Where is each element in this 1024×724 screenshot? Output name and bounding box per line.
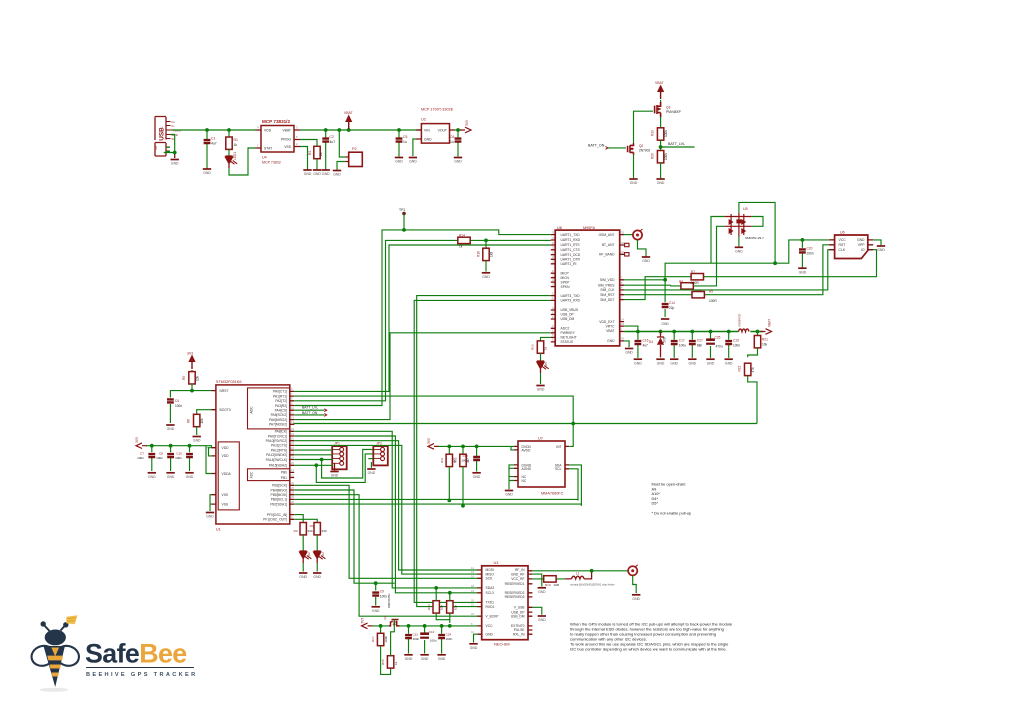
svg-text:U2: U2: [421, 118, 426, 122]
wire PA13 to JP1 pin2: [294, 453, 332, 456]
svg-text:C5: C5: [403, 135, 407, 139]
svg-text:U1: U1: [216, 528, 221, 532]
svg-text:U3: U3: [494, 561, 499, 565]
svg-text:3V3: 3V3: [361, 618, 365, 624]
svg-text:C10: C10: [176, 452, 182, 456]
svg-text:C19: C19: [733, 339, 739, 343]
wire PA11 to GPS MISO: [294, 445, 477, 574]
svg-text:5V6: 5V6: [663, 337, 667, 343]
resistor R6 10k BOOT0: [194, 414, 200, 426]
ground (R16): [482, 273, 491, 279]
svg-text:U8: U8: [557, 226, 562, 230]
wire 3V3 output: [455, 129, 462, 131]
capacitor C6 1u: [457, 130, 459, 157]
svg-text:SIM_CLK: SIM_CLK: [600, 288, 615, 292]
svg-text:VDD: VDD: [222, 446, 230, 450]
node C9 junction: [374, 581, 378, 585]
svg-text:4u7: 4u7: [643, 343, 649, 347]
ground (Q2): [629, 179, 638, 185]
svg-text:R12: R12: [454, 457, 458, 463]
svg-text:4u7: 4u7: [211, 142, 217, 146]
wire GND_RF: [532, 574, 541, 586]
connector U6 SIM holder: [829, 231, 873, 259]
svg-text:SPKN: SPKN: [561, 285, 571, 289]
svg-text:22p: 22p: [669, 306, 675, 310]
svg-text:D5*: D5*: [652, 501, 659, 506]
wire R12 to SDA bus: [462, 467, 464, 506]
svg-text:GND: GND: [661, 322, 669, 326]
svg-text:3V3: 3V3: [187, 352, 193, 356]
test point TP1: [402, 212, 406, 216]
connector JP1 SWD header: [332, 442, 347, 470]
svg-text:R3: R3: [294, 529, 298, 533]
svg-text:V_BCKP: V_BCKP: [486, 614, 500, 618]
svg-text:PA5[SCK2]: PA5[SCK2]: [271, 413, 288, 417]
ground (C8): [166, 473, 175, 479]
svg-text:68n: 68n: [697, 343, 703, 347]
wire R11 to SCL bus: [448, 467, 450, 501]
wire JP2 ground leg: [370, 462, 372, 468]
ground (D5): [536, 386, 545, 392]
svg-text:VOUT: VOUT: [438, 129, 447, 133]
svg-text:BEEHIVE GPS TRACKER: BEEHIVE GPS TRACKER: [86, 672, 197, 678]
svg-text:SIM_DET: SIM_DET: [600, 298, 614, 302]
svg-text:* Do not enable pull-up: * Do not enable pull-up: [652, 510, 692, 515]
svg-text:PB5[MOSI]: PB5[MOSI]: [271, 493, 288, 497]
ground (C15): [472, 473, 481, 479]
wire PB7 I2C SDA bus: [294, 504, 581, 506]
wire VDDA branch: [206, 446, 212, 474]
supply symbol 3V3 (VDD rail arrow): [136, 443, 147, 449]
svg-text:10k: 10k: [453, 605, 457, 610]
ground (R6): [193, 437, 202, 443]
resistor R2 2k: [314, 146, 320, 158]
wire BATT_ON gate input: [608, 147, 626, 149]
ground (C1): [203, 169, 212, 175]
wire R15 to Q1 gate: [391, 620, 395, 656]
svg-text:C6: C6: [450, 135, 454, 139]
capacitor C35 470u polarized: [710, 332, 712, 358]
svg-text:100n: 100n: [446, 637, 453, 641]
resistor R25 RF_BAND termination mark: [625, 253, 629, 256]
svg-text:Must be open-drain:: Must be open-drain:: [652, 482, 687, 487]
wire LED1 to STAT: [229, 148, 256, 175]
svg-text:R21: R21: [762, 338, 768, 342]
IC U5 TVS array SMF05C: [724, 207, 764, 240]
wire BOOT0 to R6: [197, 410, 212, 415]
svg-text:BOOT0: BOOT0: [220, 408, 231, 412]
ground (C16): [634, 359, 643, 365]
node rail junction C27: [690, 330, 694, 334]
node junction C6: [456, 128, 460, 132]
node junction VBAT arrow: [347, 128, 351, 132]
capacitor C5 1u: [398, 130, 400, 157]
svg-text:PA0[CT1]: PA0[CT1]: [273, 390, 287, 394]
svg-text:LED1: LED1: [233, 152, 237, 160]
resistor R3 330R: [300, 523, 306, 535]
diode D4 zener: [657, 332, 664, 358]
ground (C6): [454, 158, 463, 164]
svg-text:SIM_RST: SIM_RST: [600, 293, 614, 297]
wire SIM_PRES through R8: [624, 226, 724, 286]
wire BATT_LVL label stub: [661, 146, 695, 148]
ground (U5): [735, 247, 744, 253]
svg-text:4u7: 4u7: [330, 140, 336, 144]
svg-text:PA4[CS]: PA4[CS]: [275, 409, 287, 413]
pin stubs U1 right: [290, 391, 294, 519]
resistor R7 100R: [691, 274, 703, 280]
logo bee body striped: [44, 646, 65, 687]
logo bee head: [45, 630, 66, 646]
logo rule: [86, 667, 194, 669]
svg-text:UART1_RXD: UART1_RXD: [561, 238, 581, 242]
wire VCC rail to GPS: [400, 625, 478, 627]
svg-text:R9: R9: [709, 290, 713, 294]
wire VBAT rail from charger: [300, 129, 422, 131]
IC U2 MCP1700 LDO: [416, 108, 455, 144]
ground (C17): [670, 359, 679, 365]
ground (GND_RF): [538, 588, 547, 594]
svg-text:PA8[CK]: PA8[CK]: [275, 430, 287, 434]
svg-text:GSM_ANT: GSM_ANT: [599, 233, 615, 237]
wire GPS GND: [474, 634, 478, 642]
supply symbol 3V3 (U7): [428, 444, 439, 450]
node C15 junction: [475, 445, 479, 449]
capacitor C2 4u7: [325, 130, 327, 170]
wire PB6 I2C SCL bus: [294, 499, 578, 500]
pin stubs U8 right: [620, 235, 624, 341]
node rail junction D4: [659, 330, 663, 334]
svg-text:USB_DP: USB_DP: [561, 313, 575, 317]
node antenna feed junction: [590, 569, 594, 573]
svg-text:STM32F031K6: STM32F031K6: [216, 380, 242, 384]
wire BATT_ON label stub (MCU): [294, 414, 324, 416]
wire SIM_RST through R9: [624, 245, 835, 295]
svg-text:ADC: ADC: [250, 471, 254, 478]
ground (USB shield): [171, 160, 180, 166]
logo flag: [66, 615, 77, 624]
wire antenna ground: [638, 240, 647, 257]
node R11 bus junction: [447, 499, 451, 503]
svg-text:U6: U6: [840, 231, 845, 235]
ground (C21): [404, 655, 413, 661]
svg-text:VBAT: VBAT: [344, 111, 353, 115]
ground (C20): [798, 268, 807, 274]
svg-text:FERRITE: FERRITE: [738, 314, 742, 327]
svg-text:NRST: NRST: [220, 389, 229, 393]
wire PB5 to GPS V_BCKP: [294, 495, 477, 617]
svg-text:UART1_CTS: UART1_CTS: [561, 248, 581, 252]
svg-text:SCK: SCK: [486, 577, 494, 581]
capacitor C1 4u7: [206, 130, 208, 169]
svg-text:100k: 100k: [664, 153, 668, 160]
node VCC junction C13: [423, 624, 427, 628]
resistor R4 330R: [314, 523, 320, 535]
node divider junction: [484, 239, 488, 243]
ground (C19): [725, 359, 734, 365]
svg-text:100n: 100n: [156, 456, 163, 460]
wire R16 to ground: [485, 261, 487, 272]
svg-text:100n: 100n: [137, 456, 144, 460]
svg-text:RF_BAND: RF_BAND: [599, 253, 615, 257]
svg-text:Q1: Q1: [383, 615, 387, 619]
svg-text:10k: 10k: [200, 418, 204, 424]
svg-text:UART1_RTS: UART1_RTS: [561, 243, 581, 247]
wire VRTC to rail: [624, 326, 638, 331]
resistor R16 divider: [485, 240, 487, 248]
svg-text:R22: R22: [738, 365, 742, 371]
node VBUS junction at C1: [205, 128, 209, 132]
svg-text:100n: 100n: [175, 456, 182, 460]
node PA15 tap: [314, 463, 318, 467]
svg-text:3V3: 3V3: [427, 438, 431, 444]
svg-text:C27: C27: [697, 339, 703, 343]
svg-text:D4: D4: [649, 340, 653, 344]
node Q1 gate resistor junction: [379, 624, 383, 628]
transistor Q3 P-MOSFET high side: [655, 102, 681, 117]
supply symbol VBAT (monitor): [657, 85, 664, 100]
wire R17 to R15 loop: [381, 646, 391, 675]
resistor R23 1k: [537, 341, 543, 353]
node pullup R11 junction: [447, 445, 451, 449]
svg-text:R13: R13: [427, 604, 431, 610]
wire D5 to ground: [540, 373, 542, 384]
svg-text:R4: R4: [310, 524, 314, 528]
wire NRST net: [170, 384, 211, 398]
svg-text:ADC2: ADC2: [561, 327, 570, 331]
svg-text:SCL3: SCL3: [486, 591, 494, 595]
LED D3: [316, 535, 318, 551]
LED D5 network indicator: [540, 353, 542, 361]
IC U4 MCP73832 charger: [256, 119, 301, 165]
svg-text:VCC: VCC: [486, 624, 494, 628]
ground (C23): [437, 655, 446, 661]
resistor R12 4k7: [462, 446, 464, 454]
svg-text:BATT_ON: BATT_ON: [588, 143, 605, 147]
capacitor C21 100n: [408, 626, 410, 654]
svg-text:SIM_VDD: SIM_VDD: [600, 278, 615, 282]
note open-drain list: [652, 482, 692, 516]
wire VBUS rail: [172, 129, 256, 131]
svg-text:10k: 10k: [196, 375, 200, 381]
svg-text:NETLIGHT: NETLIGHT: [561, 336, 577, 340]
connector JP2 aux header: [373, 442, 388, 466]
logo bee left wing: [29, 643, 57, 669]
svg-text:NC: NC: [522, 479, 527, 483]
svg-text:3V3: 3V3: [465, 120, 469, 126]
svg-text:IO: IO: [861, 248, 865, 252]
svg-text:R16: R16: [477, 251, 481, 257]
wire TVS right pins: [752, 217, 763, 227]
svg-text:C13: C13: [429, 630, 435, 634]
wire PA8 to GPS SDA3: [294, 431, 477, 588]
svg-text:VDDA: VDDA: [222, 472, 232, 476]
resistor R20 divider bottom: [660, 147, 662, 151]
node VCC junction C23: [440, 624, 444, 628]
svg-text:R7: R7: [691, 270, 695, 274]
wire SIM_VDD net: [624, 240, 835, 280]
ground (U2): [409, 158, 418, 164]
svg-text:R19: R19: [651, 130, 655, 136]
resistor R13 SDA pull-up: [433, 601, 439, 613]
svg-text:VPP: VPP: [858, 243, 866, 247]
wire LEDs to ground: [303, 563, 317, 572]
supply symbol 3V3 (NRST pull-up): [188, 355, 195, 370]
wire Q3 drain to R19: [660, 117, 662, 129]
capacitor C20 100n SIM: [801, 240, 803, 268]
wire GSM UART3_TXD to GPS RXD1: [417, 296, 551, 607]
node TP1 junction: [402, 228, 406, 232]
svg-text:SDA3: SDA3: [486, 586, 495, 590]
transistor Q1 P-MOSFET supply switch: [383, 594, 400, 626]
svg-text:GND_RF: GND_RF: [511, 572, 525, 576]
svg-text:10R: 10R: [554, 583, 560, 587]
node rail junction C16: [636, 330, 640, 334]
svg-text:PROG: PROG: [281, 138, 291, 142]
node PA14 tap: [320, 458, 324, 462]
svg-text:AGND: AGND: [522, 467, 532, 471]
wire INT bus to U7 INT: [569, 424, 573, 447]
svg-text:SH: SH: [154, 146, 158, 150]
svg-text:M95FA: M95FA: [583, 226, 595, 230]
svg-text:3V3: 3V3: [135, 437, 139, 443]
capacitor C27 68n: [691, 332, 693, 358]
svg-text:SPKP: SPKP: [561, 280, 571, 284]
svg-text:C16: C16: [643, 339, 649, 343]
svg-text:1u: 1u: [450, 140, 454, 144]
wire SIM GND: [873, 240, 881, 245]
ground (U7): [505, 491, 514, 497]
node junction C5: [397, 128, 401, 132]
wire PA1 to INT bus riser: [294, 396, 573, 423]
svg-text:D-: D-: [172, 124, 175, 128]
capacitor C9 100n: [375, 583, 377, 605]
svg-text:Q3: Q3: [666, 106, 670, 110]
svg-text:P2: P2: [352, 147, 357, 151]
resistor R18 SCL pull-up: [447, 601, 453, 613]
svg-text:D3: D3: [321, 552, 325, 556]
ground (D4): [656, 359, 665, 365]
wire PA3 to GSM UART1_TXD via TP line: [294, 230, 551, 406]
svg-text:PA15[SDA2]: PA15[SDA2]: [269, 464, 287, 468]
svg-text:U7: U7: [538, 437, 543, 441]
svg-text:UART3_RXD: UART3_RXD: [561, 299, 581, 303]
svg-text:1k8: 1k8: [490, 252, 494, 257]
svg-text:SCL: SCL: [555, 467, 562, 471]
svg-text:RXD1: RXD1: [486, 605, 495, 609]
svg-text:C15: C15: [462, 454, 468, 458]
svg-text:R10: R10: [545, 583, 551, 587]
wire U7 SDA to bus: [569, 465, 581, 506]
svg-text:VBAT: VBAT: [606, 329, 614, 333]
svg-text:2N7002: 2N7002: [639, 149, 650, 153]
wire R18: [449, 593, 451, 620]
wire U7 SCL to bus: [569, 469, 578, 501]
capacitor C7 100n: [151, 446, 153, 471]
wire VDD rail: [146, 446, 212, 456]
ground (C9): [372, 607, 381, 613]
svg-text:PA2[T2]: PA2[T2]: [275, 399, 287, 403]
ground (C4): [166, 425, 175, 431]
capacitor C17 100u: [673, 332, 675, 358]
svg-text:C14: C14: [669, 301, 675, 305]
svg-text:100u: 100u: [679, 343, 686, 347]
wire R22 to INT bus: [748, 376, 757, 424]
supply symbol VBAT (charger rail): [345, 115, 352, 130]
wire PA6 to GSM PWRKEY: [294, 333, 551, 420]
svg-text:USB_DM: USB_DM: [561, 317, 575, 321]
svg-text:C7: C7: [140, 452, 144, 456]
LED1 charge indicator: [228, 149, 230, 156]
svg-text:DMP2035U: DMP2035U: [387, 594, 391, 608]
svg-text:VDD: VDD: [264, 129, 272, 133]
wire R20 to ground: [660, 163, 662, 178]
svg-text:PF0[OSC_IN]: PF0[OSC_IN]: [267, 513, 287, 517]
node R13 top junction: [434, 586, 438, 590]
svg-text:USB_DM: USB_DM: [511, 614, 525, 618]
svg-text:100k: 100k: [384, 635, 388, 642]
svg-text:R11: R11: [440, 457, 444, 463]
svg-text:PA13[SWDIO]: PA13[SWDIO]: [266, 453, 287, 457]
IC U1 STM32F031K6: [212, 380, 295, 532]
pin stubs U8 left: [551, 235, 555, 342]
LED D2: [302, 535, 304, 551]
svg-text:VSS: VSS: [222, 502, 229, 506]
ground (C10): [185, 473, 194, 479]
ground (R20): [656, 179, 665, 185]
svg-text:UART1_TXD: UART1_TXD: [561, 233, 581, 237]
wire TVS branch: [711, 217, 724, 264]
wire USB GND to ground: [164, 135, 175, 153]
wire GSM UART3_RXD to GPS TXD1: [414, 300, 551, 602]
svg-text:D2: D2: [307, 552, 311, 556]
wire PB3 to GPS SCK: [294, 485, 477, 578]
node NRST junction: [190, 389, 194, 393]
svg-text:100n: 100n: [413, 637, 420, 641]
svg-text:1k: 1k: [394, 661, 398, 665]
wire PA0 to GSM UART1_RTS: [294, 245, 551, 391]
svg-text:C8: C8: [159, 452, 163, 456]
svg-text:R14: R14: [459, 234, 465, 238]
wire PA15 to JP1 pin4: [294, 463, 332, 465]
ground (SIM): [877, 246, 886, 252]
capacitor C19 100n: [728, 332, 730, 358]
svg-text:1k: 1k: [234, 143, 238, 147]
svg-text:USB_VBUS: USB_VBUS: [561, 308, 579, 312]
node VBUS junction at R1: [227, 128, 231, 132]
svg-text:STAT: STAT: [264, 147, 272, 151]
ground (C5): [395, 158, 404, 164]
wire PA2 to R14 to GSM UART1_RXD: [294, 240, 551, 400]
wire 3V3 to Q1: [372, 625, 389, 627]
wire module GND: [624, 341, 629, 347]
svg-text:100k: 100k: [664, 130, 668, 137]
wire PF0 to LED R3: [294, 515, 303, 523]
svg-text:V_USB: V_USB: [514, 606, 526, 610]
resistor R5 10k NRST: [191, 370, 193, 372]
svg-text:VCC: VCC: [839, 238, 847, 242]
svg-text:R1: R1: [234, 138, 238, 142]
wire VSS to ground: [300, 147, 308, 170]
wire SIM_DET through R7: [624, 250, 876, 300]
wire TVS loop top: [739, 202, 775, 263]
svg-text:PA1[RT1]: PA1[RT1]: [273, 394, 287, 398]
ground (D2): [299, 573, 308, 579]
svg-text:I2C bus controller depending o: I2C bus controller depending on which de…: [570, 647, 727, 652]
node R12 bus junction: [461, 504, 465, 508]
wire V_USB to ground: [532, 607, 541, 614]
svg-text:C35: C35: [715, 336, 721, 340]
